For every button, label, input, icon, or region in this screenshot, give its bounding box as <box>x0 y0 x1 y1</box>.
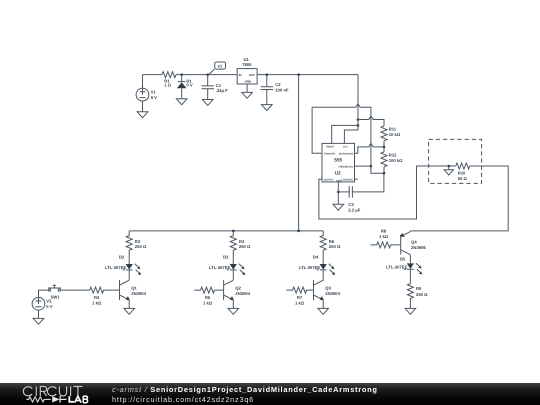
svg-text:C3: C3 <box>348 202 354 207</box>
resistor R1 <box>162 72 176 78</box>
diode D1 <box>177 75 187 99</box>
svg-text:1 kΩ: 1 kΩ <box>92 301 102 306</box>
wire top bus V1 to R1 <box>143 74 163 76</box>
op-amp U2 555 timer box <box>322 143 355 182</box>
label R10 55 ohm <box>458 170 468 181</box>
transistor Q4 pnp <box>400 231 410 263</box>
svg-text:R11: R11 <box>389 126 397 131</box>
label C2 100 nF <box>275 82 289 92</box>
svg-text:Q1: Q1 <box>131 285 137 290</box>
svg-text:2N3904: 2N3904 <box>325 291 340 296</box>
svg-text:OUT: OUT <box>249 73 255 77</box>
svg-text:R3: R3 <box>94 295 100 300</box>
svg-text:LTL-307EE: LTL-307EE <box>105 265 127 270</box>
LED D4 <box>317 264 336 280</box>
ground below V2 <box>33 318 44 324</box>
svg-text:LTL-307EE: LTL-307EE <box>386 264 408 269</box>
wire V2 to SW1 <box>39 290 49 297</box>
svg-text:U1: U1 <box>244 57 250 62</box>
svg-text:1 kΩ: 1 kΩ <box>295 301 305 306</box>
svg-text:R8: R8 <box>381 229 387 234</box>
svg-text:R2: R2 <box>135 239 141 244</box>
svg-text:0 V: 0 V <box>186 83 192 88</box>
svg-text:7805: 7805 <box>242 62 252 67</box>
label R7 1 kohm <box>295 295 305 306</box>
svg-text:R12: R12 <box>389 152 397 157</box>
svg-text:250 Ω: 250 Ω <box>329 244 341 249</box>
capacitor C3 <box>349 186 352 197</box>
resistor R7 <box>286 287 313 293</box>
svg-text:D4: D4 <box>313 255 319 260</box>
node junction +5V drop to LED bus <box>297 73 300 76</box>
label R5 1 kohm <box>203 295 213 306</box>
resistor R4 <box>230 231 236 264</box>
ground below D1 <box>176 99 187 105</box>
capacitor C2 <box>261 75 274 105</box>
label Q1 2N3904 <box>131 285 146 296</box>
wire C3 to GND pin node <box>338 191 349 193</box>
label R4 250 ohm <box>239 239 251 249</box>
resistor R9 <box>407 284 413 309</box>
node junction R11 feed <box>357 118 360 121</box>
label D2 LTL-307EE <box>105 255 127 270</box>
dashed box around R10 <box>429 139 482 183</box>
wire DISCHARGE pin with hop <box>355 143 385 153</box>
svg-text:GND: GND <box>245 80 251 84</box>
ground inside dashed box <box>444 166 453 175</box>
svg-text:IN: IN <box>239 73 242 77</box>
voltage source V2 <box>32 297 45 318</box>
wire R1 to node <box>176 74 237 76</box>
svg-text:2N3904: 2N3904 <box>131 291 146 296</box>
transistor Q1 <box>120 280 130 308</box>
ground below R9 <box>405 308 416 314</box>
node junction RESET feed <box>357 124 360 127</box>
label R11 10 kohm <box>389 126 401 137</box>
svg-text:R4: R4 <box>239 239 245 244</box>
ground below Q3 <box>318 308 329 314</box>
label V2 5 V <box>46 299 52 310</box>
svg-text:5 V: 5 V <box>46 304 52 309</box>
ground below U1 <box>242 92 253 98</box>
node junction THRESHOLD <box>370 165 373 168</box>
svg-text:1 kΩ: 1 kΩ <box>203 301 213 306</box>
svg-text:U2: U2 <box>335 170 341 175</box>
wire LED supply bus <box>129 230 323 232</box>
svg-text:555: 555 <box>334 157 342 162</box>
resistor R5 <box>194 287 223 293</box>
label V1 9 V <box>151 90 157 101</box>
footer line 2 <box>112 395 254 404</box>
svg-text:55 Ω: 55 Ω <box>458 176 468 181</box>
svg-text:1 kΩ: 1 kΩ <box>379 234 389 239</box>
voltage source V1 <box>136 75 149 112</box>
resistor R11 <box>381 126 387 141</box>
wire THRESHOLD pin stub <box>355 165 371 167</box>
svg-text:Q4: Q4 <box>411 240 417 245</box>
svg-text:250 Ω: 250 Ω <box>135 244 147 249</box>
svg-text:Q3: Q3 <box>325 285 331 290</box>
footer line 1 <box>112 385 378 394</box>
LED D5 <box>404 263 423 283</box>
label R1 1 ohm <box>164 78 171 87</box>
svg-text:VCC: VCC <box>343 146 348 149</box>
LED D2 <box>123 264 142 280</box>
svg-text:OUTPUT: OUTPUT <box>324 179 334 182</box>
node junction R12 bottom <box>383 172 386 175</box>
label D1 0 V <box>186 78 192 87</box>
node junction at C2 <box>266 73 269 76</box>
svg-text:R10: R10 <box>458 170 466 175</box>
resistor R2 <box>126 231 132 264</box>
logo resistor zigzag <box>26 397 50 402</box>
resistor R8 <box>370 242 400 248</box>
ground below Q2 <box>228 308 239 314</box>
wire to RESET pin <box>332 125 358 143</box>
svg-text:LTL-307EE: LTL-307EE <box>299 265 321 270</box>
label R8 1 kohm <box>379 229 389 240</box>
svg-text:R5: R5 <box>205 295 211 300</box>
label D5 LTL-307EE <box>386 256 408 269</box>
wire threshold to R12 bottom <box>371 166 384 173</box>
wire R10 right down to emitter bus <box>410 166 508 231</box>
wire CONTROL stub <box>355 178 358 180</box>
svg-text:10 kΩ: 10 kΩ <box>389 132 401 137</box>
label R9 250 ohm <box>416 286 428 297</box>
svg-text:2N3906: 2N3906 <box>411 245 426 250</box>
svg-text:V2: V2 <box>46 299 52 304</box>
svg-text:R6: R6 <box>329 239 335 244</box>
svg-text:Q2: Q2 <box>235 285 241 290</box>
svg-text:250 Ω: 250 Ω <box>239 244 251 249</box>
wire R12 bottom to threshold node <box>383 167 385 174</box>
svg-text:V1: V1 <box>151 90 157 95</box>
label C1 .33u F <box>216 83 228 93</box>
label R3 1 kohm <box>92 295 102 306</box>
label R12 100 kohm <box>389 152 403 163</box>
ground below C2 <box>262 105 273 111</box>
wire trigger drop to TRIGGER pin <box>312 107 322 153</box>
footer bar <box>0 383 540 405</box>
node junction bus R4 <box>232 230 235 233</box>
svg-text:.33µ F: .33µ F <box>216 88 228 93</box>
switch SW1 <box>48 285 61 291</box>
svg-text:1 Ω: 1 Ω <box>164 83 171 88</box>
svg-text:D3: D3 <box>223 255 229 260</box>
svg-text:100 nF: 100 nF <box>275 87 289 92</box>
resistor R12 <box>381 152 387 167</box>
wire U1 GND pin <box>246 84 248 92</box>
svg-text:THRESHOLD: THRESHOLD <box>338 165 353 168</box>
transistor Q2 <box>224 280 234 308</box>
label Q4 2N3906 <box>411 240 426 251</box>
svg-text:2.2 µF: 2.2 µF <box>348 207 360 212</box>
svg-text:R7: R7 <box>297 295 303 300</box>
wire R11 to discharge node <box>383 141 385 152</box>
label Q3 2N3904 <box>325 285 340 296</box>
capacitor C1 <box>202 75 215 100</box>
label D4 LTL-307EE <box>299 255 321 270</box>
resistor R10 <box>456 163 470 169</box>
ground below C1 <box>202 100 213 106</box>
wire trigger loop top with hop <box>312 104 371 166</box>
svg-text:9 V: 9 V <box>151 95 157 100</box>
svg-text:SW1: SW1 <box>51 295 61 300</box>
svg-text:D5: D5 <box>400 256 406 261</box>
node junction bus +5 drop <box>297 230 300 233</box>
svg-text:LTL-307EE: LTL-307EE <box>209 265 231 270</box>
node junction at D1 <box>180 73 183 76</box>
resistor R3 <box>60 287 119 293</box>
LED D3 <box>227 264 246 280</box>
logo diode <box>52 396 59 402</box>
wire U1 OUT to 555 drop <box>257 74 358 76</box>
ground below Q1 <box>124 308 135 314</box>
ground below V1 <box>137 112 148 118</box>
svg-text:R9: R9 <box>416 286 422 291</box>
label C3 2.2 uF <box>348 202 360 213</box>
transistor Q3 <box>314 280 324 308</box>
wire R12 node down to C3 <box>352 173 384 192</box>
logo LAB text <box>69 396 87 403</box>
svg-text:DISCHARGE: DISCHARGE <box>339 152 354 155</box>
circuitlab logo <box>0 383 110 405</box>
ground below 555 <box>333 204 344 210</box>
wire +5V vertical drop to LED bus <box>298 75 300 231</box>
svg-text:RESET: RESET <box>326 146 335 149</box>
label R2 250 ohm <box>135 239 147 249</box>
wire 555 GND pin down <box>337 182 339 204</box>
node junction at C1 <box>206 73 209 76</box>
resistor R6 <box>320 231 326 264</box>
svg-text:v1: v1 <box>218 64 223 69</box>
svg-text:100 kΩ: 100 kΩ <box>389 158 403 163</box>
label U1 7805 <box>242 57 252 67</box>
wire OUTPUT to dashed box <box>319 166 456 219</box>
svg-text:250 Ω: 250 Ω <box>416 292 428 297</box>
wire top bus corner down at x358 <box>344 75 358 144</box>
node junction R10 ground <box>448 165 451 168</box>
label Q2 2N3904 <box>235 285 250 296</box>
svg-text:CONTROL: CONTROL <box>341 179 353 182</box>
logo CIRCUIT lettering <box>23 386 82 396</box>
op-amp U1 7805 regulator box <box>237 69 257 84</box>
net flag v1 <box>209 62 225 74</box>
svg-text:TRIGGER: TRIGGER <box>324 152 335 155</box>
svg-text:D2: D2 <box>119 255 125 260</box>
svg-text:2N3904: 2N3904 <box>235 291 250 296</box>
node junction R11/R12/discharge <box>383 146 386 149</box>
wire to R11 top with hop <box>358 116 384 126</box>
label R6 250 ohm <box>329 239 341 249</box>
node junction C3/GND <box>337 191 340 194</box>
label D3 LTL-307EE <box>209 255 231 270</box>
